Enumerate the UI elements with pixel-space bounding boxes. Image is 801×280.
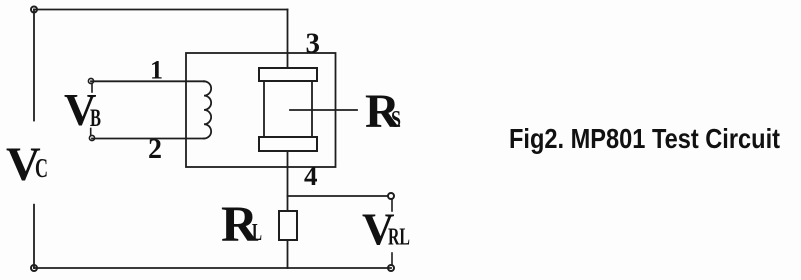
device box MP801 (186, 53, 336, 167)
terminal VRL bottom (388, 253, 394, 271)
svg-text:B: B (90, 105, 101, 132)
wire pin 1 (91, 80, 204, 82)
svg-text:3: 3 (306, 28, 321, 60)
leader line to Rs label (290, 109, 357, 111)
wire top horizontal (34, 9, 288, 11)
terminal pin2 VB- (89, 129, 94, 141)
svg-text:1: 1 (150, 56, 163, 85)
svg-text:S: S (391, 107, 401, 133)
svg-text:L: L (252, 220, 262, 246)
inductor coil (primary winding) (204, 81, 211, 138)
wire below RL (287, 240, 289, 268)
terminal pin1 VB+ (88, 78, 93, 92)
wire bottom horizontal (34, 267, 391, 269)
wire left vertical upper (33, 10, 35, 121)
svg-text:4: 4 (304, 161, 318, 191)
wire drop to pin 3 (287, 10, 289, 69)
svg-text:Fig2. MP801 Test Circuit: Fig2. MP801 Test Circuit (509, 123, 780, 154)
sensor RS body right side (311, 81, 313, 137)
sensor RS top cap (259, 68, 317, 81)
resistor RL body (279, 211, 297, 240)
terminal VRL top (388, 193, 394, 211)
sensor RS bottom cap (259, 137, 317, 151)
sensor RS body left side (263, 81, 265, 137)
wire junction to VRL top terminal (288, 195, 389, 197)
wire pin 2 (92, 138, 204, 140)
svg-text:C: C (35, 153, 48, 183)
terminal bottom-left (31, 265, 37, 271)
terminal top-left (31, 7, 37, 13)
svg-text:2: 2 (148, 134, 162, 165)
wire left vertical lower (33, 205, 35, 268)
svg-text:RL: RL (388, 225, 410, 251)
wire below RS to node 4 (287, 151, 289, 211)
